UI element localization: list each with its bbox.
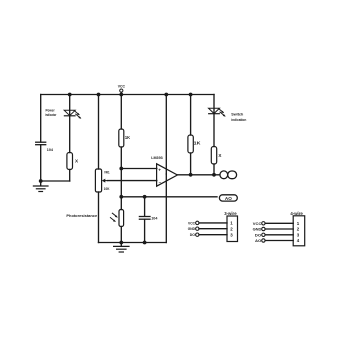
svg-text:1K: 1K xyxy=(125,135,131,140)
pin J2-3 DO xyxy=(255,233,293,237)
resistor R4 xyxy=(211,147,216,165)
ground (left) xyxy=(33,181,48,192)
svg-text:X: X xyxy=(218,153,222,158)
power symbol VCC xyxy=(118,85,126,95)
junction top rail / U1 V+ pin xyxy=(164,93,168,97)
svg-text:10K: 10K xyxy=(104,187,110,191)
svg-text:1: 1 xyxy=(230,221,233,226)
pin J2-4 AO xyxy=(255,239,293,243)
pin J2-2 GND xyxy=(253,227,294,231)
wire divider node down to AO rail xyxy=(120,169,122,197)
junction top rail / R3 branch xyxy=(189,93,193,97)
capacitor C2 xyxy=(139,217,150,220)
resistor R2 xyxy=(119,129,124,147)
wire inverting input from VR1 wiper to U1 xyxy=(108,180,157,182)
wire LED1 / R1 branch xyxy=(41,95,70,182)
svg-text:104: 104 xyxy=(47,147,54,152)
svg-text:2: 2 xyxy=(297,227,300,232)
connector J1 3-wire box xyxy=(227,216,238,242)
capacitor C1 xyxy=(36,142,46,145)
junction top rail / VR1 branch xyxy=(97,93,101,97)
svg-text:2: 2 xyxy=(230,227,233,232)
junction ground rail / C2 xyxy=(143,241,147,245)
svg-text:AO: AO xyxy=(255,239,261,243)
svg-text:+: + xyxy=(158,168,161,173)
svg-text:Photoresistance: Photoresistance xyxy=(66,214,97,218)
svg-text:LM393: LM393 xyxy=(151,156,163,160)
wire U1 output xyxy=(177,174,220,176)
connector J2 4-wire box xyxy=(293,216,305,246)
wire VCC top rail xyxy=(41,94,214,96)
wire U1 V+ pin column xyxy=(165,95,167,175)
svg-text:VCC: VCC xyxy=(188,221,195,225)
op-amp U1 xyxy=(157,164,178,186)
pin J2-1 VCC xyxy=(253,222,293,226)
wire U1 GND pin column xyxy=(165,174,167,243)
svg-text:1K: 1K xyxy=(194,141,202,146)
resistor R3 xyxy=(188,135,193,153)
svg-text:4-wire: 4-wire xyxy=(290,211,303,216)
svg-text:VCC: VCC xyxy=(118,85,126,89)
svg-text:AO: AO xyxy=(225,196,232,201)
svg-text:–: – xyxy=(159,180,162,185)
wire R2 branch xyxy=(120,95,122,169)
node divider junction xyxy=(119,167,123,171)
junction left ground node xyxy=(39,179,43,183)
svg-text:indication: indication xyxy=(231,118,247,122)
wire ground rail (bottom) xyxy=(99,242,167,244)
pin numbers J2 xyxy=(297,221,300,243)
svg-text:DO: DO xyxy=(190,233,195,237)
svg-text:104: 104 xyxy=(151,216,158,221)
wire C2 branch xyxy=(144,197,146,243)
svg-text:X: X xyxy=(75,159,79,164)
pin J1-3 DO xyxy=(190,233,227,237)
svg-text:GND: GND xyxy=(253,228,262,232)
junction output / R3 xyxy=(189,173,193,177)
potentiometer VR1 xyxy=(95,169,107,192)
junction AO rail / LDR column xyxy=(119,195,123,199)
junction AO rail / C2 column xyxy=(143,195,147,199)
svg-text:indicator: indicator xyxy=(45,113,57,117)
svg-text:VCC: VCC xyxy=(253,222,262,226)
pin J1-2 GND xyxy=(188,227,227,231)
photoresistor LDR xyxy=(110,210,123,227)
svg-text:4: 4 xyxy=(297,238,300,243)
svg-text:1: 1 xyxy=(297,221,300,226)
resistor R1 xyxy=(67,153,73,170)
ground (bottom) xyxy=(114,243,129,253)
LED D2 switch indication xyxy=(209,108,226,117)
wire LDR branch xyxy=(120,197,122,243)
label Switch indication xyxy=(231,113,247,123)
connector DO xyxy=(220,171,237,179)
junction top rail / LED1 branch xyxy=(68,93,72,97)
svg-text:Power: Power xyxy=(46,108,56,112)
junction top rail / VCC and R2 xyxy=(119,93,123,97)
label Power indicator xyxy=(45,108,57,117)
wire LED2 / R4 branch xyxy=(213,95,215,175)
connector AO xyxy=(219,195,237,201)
svg-text:3: 3 xyxy=(230,232,233,237)
wire C1 branch xyxy=(40,95,42,182)
pin J1-1 VCC xyxy=(188,221,227,225)
wire VR1 branch xyxy=(98,95,100,243)
wire R3 branch xyxy=(190,95,192,175)
pin numbers J1 xyxy=(230,221,233,238)
wire non-inverting input to U1 xyxy=(121,168,157,170)
junction ground rail / LDR xyxy=(119,241,123,245)
wire AO rail xyxy=(121,196,217,198)
svg-text:DO: DO xyxy=(255,233,262,237)
junction output / R4 xyxy=(212,173,216,177)
svg-text:3: 3 xyxy=(297,232,300,237)
svg-text:VR1: VR1 xyxy=(104,170,110,174)
svg-text:Switch: Switch xyxy=(231,113,244,117)
LED D1 power indicator xyxy=(64,110,81,119)
svg-text:GND: GND xyxy=(188,227,196,231)
